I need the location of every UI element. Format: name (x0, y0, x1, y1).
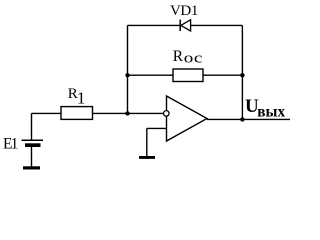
wire output (207, 118, 290, 120)
wire non-inverting input (147, 127, 167, 129)
node junction dot output (240, 117, 244, 121)
wire ground lead of op-amp (146, 128, 148, 156)
wire top feedback right segment (191, 24, 243, 26)
wire input from battery to R1 (32, 112, 62, 114)
node junction dot feedback-right / Roc (240, 73, 244, 77)
diode VD1 triangle (181, 20, 191, 31)
node junction dot feedback-left / Roc (125, 73, 129, 77)
svg-text:R: R (173, 48, 184, 65)
wire Roc left lead (128, 74, 174, 76)
wire battery top lead (31, 113, 33, 140)
wire R1 to inverting input (93, 112, 164, 114)
ground bar under op-amp (139, 156, 155, 159)
wire right feedback vertical (241, 25, 243, 119)
node junction dot inverting input (125, 111, 129, 115)
resistor R1 (61, 107, 93, 120)
wire battery bottom lead (31, 147, 33, 167)
svg-text:ос: ос (184, 51, 203, 67)
svg-text:E1: E1 (3, 136, 18, 153)
battery E1 negative plate (short thick) (25, 143, 41, 147)
svg-text:вых: вых (257, 104, 285, 121)
wire Roc right lead (203, 74, 242, 76)
svg-text:VD1: VD1 (170, 3, 198, 19)
battery E1 positive plate (long thin) (22, 139, 44, 141)
op-amp U1 triangle (167, 96, 208, 141)
wire left feedback vertical (127, 25, 129, 113)
op-amp inverting input bubble (164, 111, 170, 117)
ground bar under battery E1 (23, 166, 40, 169)
diode VD1 cathode bar (179, 20, 181, 31)
wire top feedback left segment (128, 24, 181, 26)
resistor Roc (173, 69, 203, 82)
